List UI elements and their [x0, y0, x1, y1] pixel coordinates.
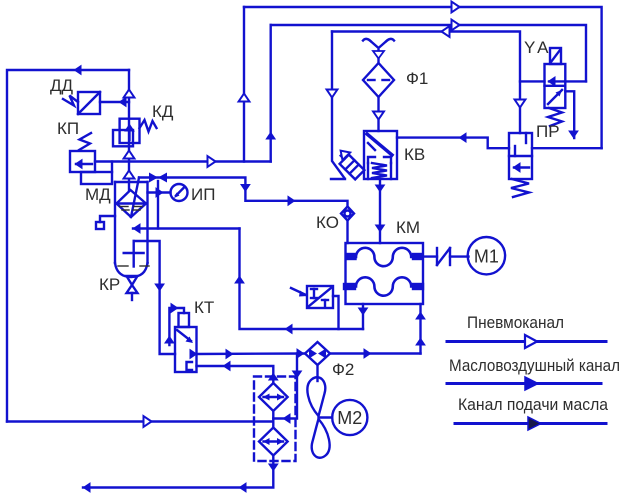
check valve KO: [341, 207, 354, 221]
svg-text:Ф2: Ф2: [332, 360, 354, 379]
compressor KM: [344, 243, 423, 304]
wire KT to F2 line: [197, 352, 306, 355]
pressure gauge IP: [148, 184, 188, 201]
wire PR right to line1: [532, 147, 602, 149]
drain valve KR: [127, 276, 138, 300]
svg-text:ПР: ПР: [536, 122, 560, 141]
wire F2 to KM right: [330, 352, 421, 354]
svg-text:Канал подачи масла: Канал подачи масла: [458, 395, 608, 414]
wire bowtie line: [139, 178, 348, 209]
wire line1 top: [244, 7, 602, 148]
wire trunk vertical: [128, 70, 130, 190]
wire F1 to KV: [377, 97, 379, 131]
solenoid valve YA: [545, 48, 566, 126]
wire YA exhaust: [565, 91, 574, 138]
pressure sensor DD: [63, 92, 100, 114]
YA flow arrow: [549, 80, 564, 82]
motor M2: [332, 400, 367, 435]
wire fan to M2: [319, 416, 333, 418]
svg-text:Ф1: Ф1: [406, 69, 428, 88]
motor M1: [468, 237, 505, 274]
svg-text:КТ: КТ: [194, 298, 214, 317]
MD sight tube: [124, 241, 144, 267]
wire x332 down to KV actuator: [332, 32, 344, 178]
svg-text:ИП: ИП: [191, 185, 215, 204]
wire M1 shaft: [423, 255, 437, 257]
oil separator MD vessel: [115, 182, 148, 277]
svg-text:КВ: КВ: [404, 145, 425, 164]
MD side port: [96, 216, 115, 229]
wire YA right to line2: [565, 80, 586, 82]
KV actuator piston: [336, 151, 364, 179]
wire temp sensor link: [333, 296, 339, 329]
wire KP pilot riser: [111, 162, 113, 173]
svg-text:Масловоздушный канал: Масловоздушный канал: [449, 356, 620, 375]
wire F1 intake stem: [377, 50, 379, 63]
svg-text:КО: КО: [316, 213, 339, 232]
svg-text:М1: М1: [474, 247, 499, 267]
wire left bottom to cooler: [7, 420, 273, 422]
legend line oil supply: [455, 422, 606, 425]
MD oil level dashes: [118, 207, 149, 267]
wire KV to KM: [379, 179, 381, 243]
MD inner separator element: [117, 178, 147, 218]
wire line3 to YA left port: [520, 80, 545, 82]
svg-text:КП: КП: [57, 119, 79, 138]
wire vertical x270: [270, 25, 272, 162]
wire F2 branch down to cooler: [273, 354, 297, 419]
wire return vertical: [240, 229, 364, 330]
filter F2: [305, 342, 330, 365]
svg-text:ДД: ДД: [50, 76, 74, 95]
wire KM bottom-left drop: [362, 304, 364, 329]
svg-text:КМ: КМ: [396, 218, 420, 237]
wire fan stem: [316, 364, 318, 381]
wire top-left horizontal: [7, 70, 129, 422]
temperature sensor: [291, 286, 333, 308]
wire MD return: [133, 227, 240, 229]
svg-text:КР: КР: [99, 275, 120, 294]
svg-text:YA: YA: [524, 38, 551, 57]
svg-text:КД: КД: [152, 102, 174, 121]
cooler section 2: [259, 428, 288, 456]
wire MD oil out to KT: [134, 241, 175, 354]
wire cooler to KT return: [197, 366, 274, 383]
wire line3: [332, 32, 520, 134]
thermostat valve KT: [169, 308, 196, 372]
oil cooler (dashed): [254, 377, 296, 462]
legend line oil-air: [447, 382, 601, 385]
wire vertical x244: [243, 7, 245, 162]
wire KO to KM: [346, 219, 348, 243]
coupling: [437, 248, 450, 265]
svg-text:МД: МД: [85, 185, 111, 204]
wire bowtie drain: [157, 181, 159, 229]
valve KV: [364, 131, 397, 179]
wire horizontal y161: [95, 160, 271, 162]
valve KP: [70, 133, 112, 184]
legend arrows: [525, 335, 537, 348]
wire KV right to PR: [397, 138, 509, 149]
wire KM bottom-right drop: [419, 304, 421, 354]
svg-text:Пневмоканал: Пневмоканал: [467, 313, 564, 332]
arrows: pneumatic open: [74, 65, 82, 76]
shut-off valve (bowtie): [149, 173, 167, 183]
cooler section 1: [259, 383, 288, 411]
wire line2: [271, 25, 586, 81]
wire DD to trunk: [100, 101, 129, 103]
svg-text:М2: М2: [337, 408, 362, 428]
wire cooler inner vertical: [272, 411, 274, 428]
valve PR: [509, 133, 532, 197]
legend line pneumatic: [447, 340, 606, 343]
fan: [307, 377, 329, 457]
wire cooler bottom drain: [83, 456, 273, 488]
valve KD: [113, 119, 157, 147]
filter F1: [363, 39, 394, 97]
